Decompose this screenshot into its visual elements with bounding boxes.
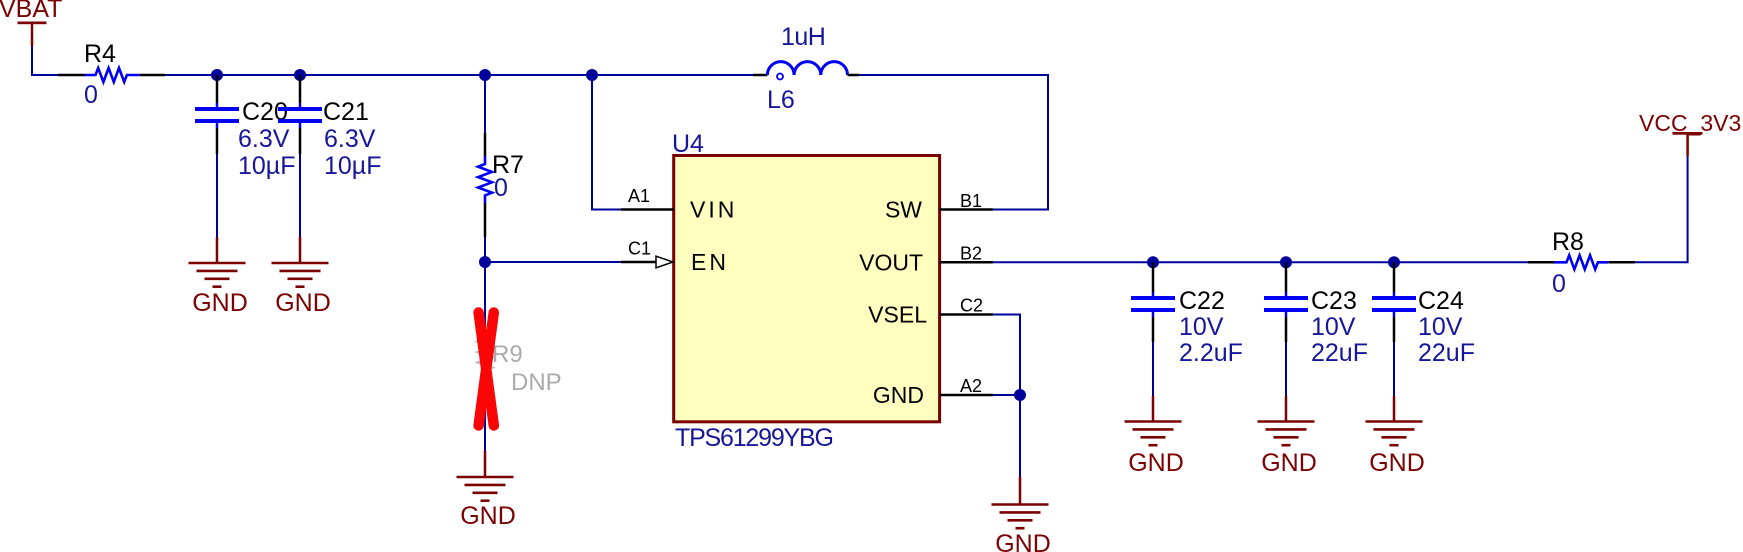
svg-text:10V: 10V (1179, 313, 1224, 341)
svg-text:U4: U4 (672, 130, 704, 158)
op-amp U1 : IC U4 body (672, 130, 940, 452)
wire main bus (165, 74, 753, 76)
inductor L6 (753, 23, 859, 114)
pin C1 EN (621, 239, 729, 276)
wire R8 to VCC_3V3 (1635, 156, 1688, 262)
svg-text:B2: B2 (960, 244, 982, 264)
svg-text:22uF: 22uF (1418, 339, 1475, 367)
svg-text:2.2uF: 2.2uF (1179, 339, 1243, 367)
capacitor C22 (1131, 262, 1243, 367)
svg-text:0: 0 (1552, 270, 1566, 298)
power port VBAT (0, 0, 62, 46)
ground GND (C20) (189, 237, 248, 317)
svg-text:GND: GND (1261, 449, 1317, 477)
wire C24 to GND (1393, 342, 1395, 396)
power port VCC_3V3 (1639, 110, 1741, 156)
node junction C24 (1388, 256, 1400, 268)
svg-text:6.3V: 6.3V (238, 125, 290, 153)
svg-text:10V: 10V (1311, 313, 1356, 341)
wire C23 to GND (1285, 342, 1287, 396)
wire VIN branch (592, 75, 621, 210)
svg-text:B1: B1 (960, 191, 982, 211)
svg-text:C2: C2 (960, 296, 983, 316)
svg-text:VIN: VIN (690, 197, 737, 223)
capacitor C21 (278, 75, 381, 180)
node junction C22 (1147, 256, 1159, 268)
wire VSEL to A2 (993, 315, 1020, 396)
svg-text:22uF: 22uF (1311, 339, 1368, 367)
svg-text:6.3V: 6.3V (324, 125, 376, 153)
svg-text:C21: C21 (323, 98, 369, 126)
svg-text:VBAT: VBAT (0, 0, 62, 23)
ground GND (C22) (1125, 396, 1184, 477)
svg-text:GND: GND (873, 382, 924, 408)
svg-text:C23: C23 (1311, 287, 1357, 315)
svg-text:0: 0 (494, 174, 508, 202)
capacitor C20 (195, 75, 295, 180)
svg-text:DNP: DNP (511, 369, 562, 396)
svg-text:SW: SW (885, 197, 922, 223)
svg-text:GND: GND (1369, 449, 1425, 477)
svg-text:1uH: 1uH (781, 23, 825, 51)
capacitor C23 (1264, 262, 1368, 367)
svg-text:VCC_3V3: VCC_3V3 (1639, 110, 1741, 136)
pin A1 VIN (621, 186, 737, 223)
resistor R9 (DNP) (478, 262, 562, 451)
svg-text:C22: C22 (1179, 287, 1225, 315)
wire C20 to GND (216, 154, 218, 237)
wire VOUT net (993, 261, 1528, 263)
node junction A2 (1014, 389, 1026, 401)
svg-text:R4: R4 (84, 40, 116, 68)
ground GND (A2) (992, 477, 1051, 552)
svg-text:GND: GND (192, 289, 248, 317)
svg-text:GND: GND (460, 502, 516, 530)
svg-text:GND: GND (275, 289, 331, 317)
svg-text:C1: C1 (628, 239, 651, 259)
svg-text:L6: L6 (767, 86, 795, 114)
pin B2 VOUT (859, 244, 993, 276)
node junction VIN (586, 69, 598, 81)
wire A2 to GND (993, 395, 1020, 477)
svg-text:C24: C24 (1418, 287, 1464, 315)
pin B1 SW (885, 191, 993, 223)
svg-text:A1: A1 (628, 186, 650, 206)
node junction EN (479, 256, 491, 268)
svg-text:10µF: 10µF (238, 152, 295, 180)
node junction C20 (211, 69, 223, 81)
svg-text:TPS61299YBG: TPS61299YBG (675, 424, 833, 452)
svg-text:GND: GND (995, 530, 1051, 552)
ground GND (C24) (1366, 396, 1425, 477)
svg-text:EN: EN (691, 249, 729, 275)
svg-text:A2: A2 (960, 376, 982, 396)
svg-text:10µF: 10µF (324, 152, 381, 180)
wire EN net (485, 261, 621, 263)
wire C21 to GND (299, 154, 301, 237)
DNP cross X (479, 313, 494, 426)
svg-text:0: 0 (84, 81, 98, 109)
ground GND (C23) (1258, 396, 1317, 477)
resistor R7 (478, 75, 524, 262)
svg-text:VOUT: VOUT (859, 249, 923, 275)
svg-text:R8: R8 (1552, 228, 1584, 256)
svg-text:R9: R9 (492, 341, 523, 368)
node junction C21 (294, 69, 306, 81)
ground GND (R9) (457, 451, 516, 530)
capacitor C24 (1372, 262, 1475, 367)
wire VBAT to R4 (32, 46, 58, 75)
resistor R8 (1528, 228, 1635, 298)
svg-text:VSEL: VSEL (868, 302, 927, 328)
wire C22 to GND (1152, 342, 1154, 396)
svg-text:GND: GND (1128, 449, 1184, 477)
resistor R4 (58, 40, 165, 109)
pin A2 GND (873, 376, 993, 408)
ground GND (C21) (272, 237, 331, 317)
svg-text:10V: 10V (1418, 313, 1463, 341)
wire L6 to SW (859, 75, 1048, 210)
pin C2 VSEL (868, 296, 993, 328)
node junction R7 (479, 69, 491, 81)
node junction C23 (1280, 256, 1292, 268)
